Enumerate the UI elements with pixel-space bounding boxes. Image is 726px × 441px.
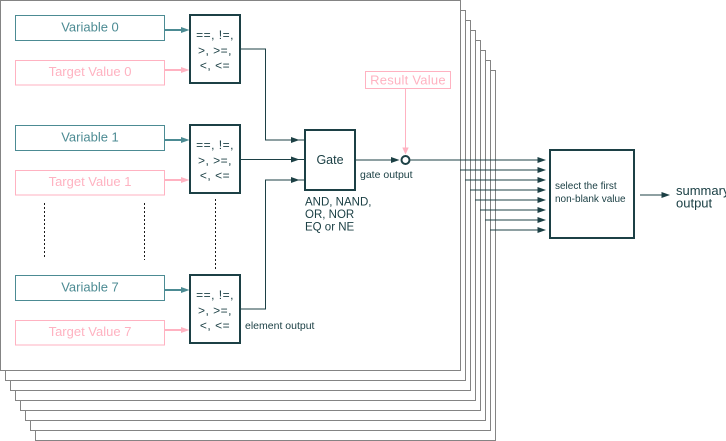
- stacked sheet 3: [11, 21, 471, 391]
- wire Target Value 7 to comparator: [165, 327, 190, 333]
- input box Result Value: [366, 72, 451, 89]
- wire gate output to result node: [355, 157, 400, 163]
- stacked sheet 5: [21, 41, 481, 411]
- wire Variable 1 to comparator: [165, 137, 190, 143]
- svg-text:non-blank value: non-blank value: [555, 194, 626, 205]
- svg-text:Variable 0: Variable 0: [61, 20, 119, 35]
- wire sheet 5 gate output to selector: [475, 197, 546, 203]
- wire Variable 0 to comparator: [165, 27, 190, 33]
- svg-text:Variable 7: Variable 7: [61, 280, 119, 295]
- svg-text:==, !=,: ==, !=,: [196, 288, 234, 302]
- svg-text:Result Value: Result Value: [370, 73, 446, 88]
- wire sheet 8 gate output to selector: [490, 227, 546, 233]
- wire Variable 7 to comparator: [165, 287, 190, 293]
- input box Variable 7: [16, 276, 165, 301]
- dotted ellipsis line middle: [144, 203, 146, 260]
- input box Target Value 1: [16, 171, 165, 196]
- svg-text:Target Value 0: Target Value 0: [49, 64, 132, 79]
- wire selector to summary output: [640, 192, 670, 198]
- svg-text:Gate: Gate: [316, 153, 343, 167]
- result node circle: [402, 156, 410, 164]
- svg-text:AND, NAND,: AND, NAND,: [305, 197, 371, 209]
- dotted ellipsis line left: [44, 203, 46, 259]
- gate box: [305, 130, 355, 190]
- svg-text:<, <=: <, <=: [200, 319, 230, 333]
- wire sheet 7 gate output to selector: [485, 217, 546, 223]
- stacked sheet 7: [31, 61, 491, 431]
- selector box: [550, 150, 634, 238]
- wire sheet 4 gate output to selector: [470, 187, 546, 193]
- wire sheet 3 gate output to selector: [465, 177, 546, 183]
- comparator box 1: [190, 125, 240, 193]
- svg-text:>, >=,: >, >=,: [198, 304, 232, 318]
- wire comparator 0 output to gate input 1: [240, 49, 304, 143]
- wire comparator 1 output to gate input 2: [240, 157, 304, 163]
- wire Target Value 1 to comparator: [165, 177, 190, 183]
- label summary output: [676, 183, 726, 211]
- input box Target Value 0: [16, 61, 165, 86]
- svg-text:<, <=: <, <=: [200, 59, 230, 73]
- svg-text:element output: element output: [245, 320, 315, 332]
- svg-text:Target Value 1: Target Value 1: [49, 174, 132, 189]
- svg-text:select the first: select the first: [555, 181, 617, 192]
- svg-text:Variable 1: Variable 1: [61, 130, 119, 145]
- svg-text:Target Value 7: Target Value 7: [49, 324, 132, 339]
- wire result node to selector: [411, 157, 547, 163]
- svg-text:>, >=,: >, >=,: [198, 44, 232, 58]
- dotted ellipsis line comparator column: [215, 199, 217, 269]
- comparator box 0: [190, 15, 240, 83]
- label gate output: [360, 169, 413, 181]
- input box Variable 1: [16, 126, 165, 151]
- stacked sheet 6: [26, 51, 486, 421]
- stacked sheet 2: [6, 11, 466, 381]
- sheet 1 front page: [1, 1, 461, 371]
- svg-text:output: output: [676, 196, 713, 211]
- wire comparator 7 output to gate input 3: [240, 177, 304, 309]
- svg-text:EQ or NE: EQ or NE: [305, 222, 355, 234]
- label element output: [245, 320, 315, 332]
- wire Target Value 0 to comparator: [165, 67, 190, 73]
- wire sheet 6 gate output to selector: [480, 207, 546, 213]
- comparator box 7: [190, 275, 240, 343]
- svg-text:gate output: gate output: [360, 169, 413, 181]
- stacked sheet 4: [16, 31, 476, 401]
- svg-text:<, <=: <, <=: [200, 169, 230, 183]
- wire Result Value to result node: [402, 89, 408, 155]
- wire sheet 2 gate output to selector: [460, 167, 546, 173]
- input box Target Value 7: [16, 321, 165, 346]
- stacked sheet 8: [36, 71, 496, 441]
- svg-text:OR, NOR: OR, NOR: [305, 209, 354, 221]
- svg-text:>, >=,: >, >=,: [198, 154, 232, 168]
- label gate types: [305, 197, 371, 234]
- svg-text:==, !=,: ==, !=,: [196, 138, 234, 152]
- input box Variable 0: [16, 16, 165, 41]
- svg-text:==, !=,: ==, !=,: [196, 28, 234, 42]
